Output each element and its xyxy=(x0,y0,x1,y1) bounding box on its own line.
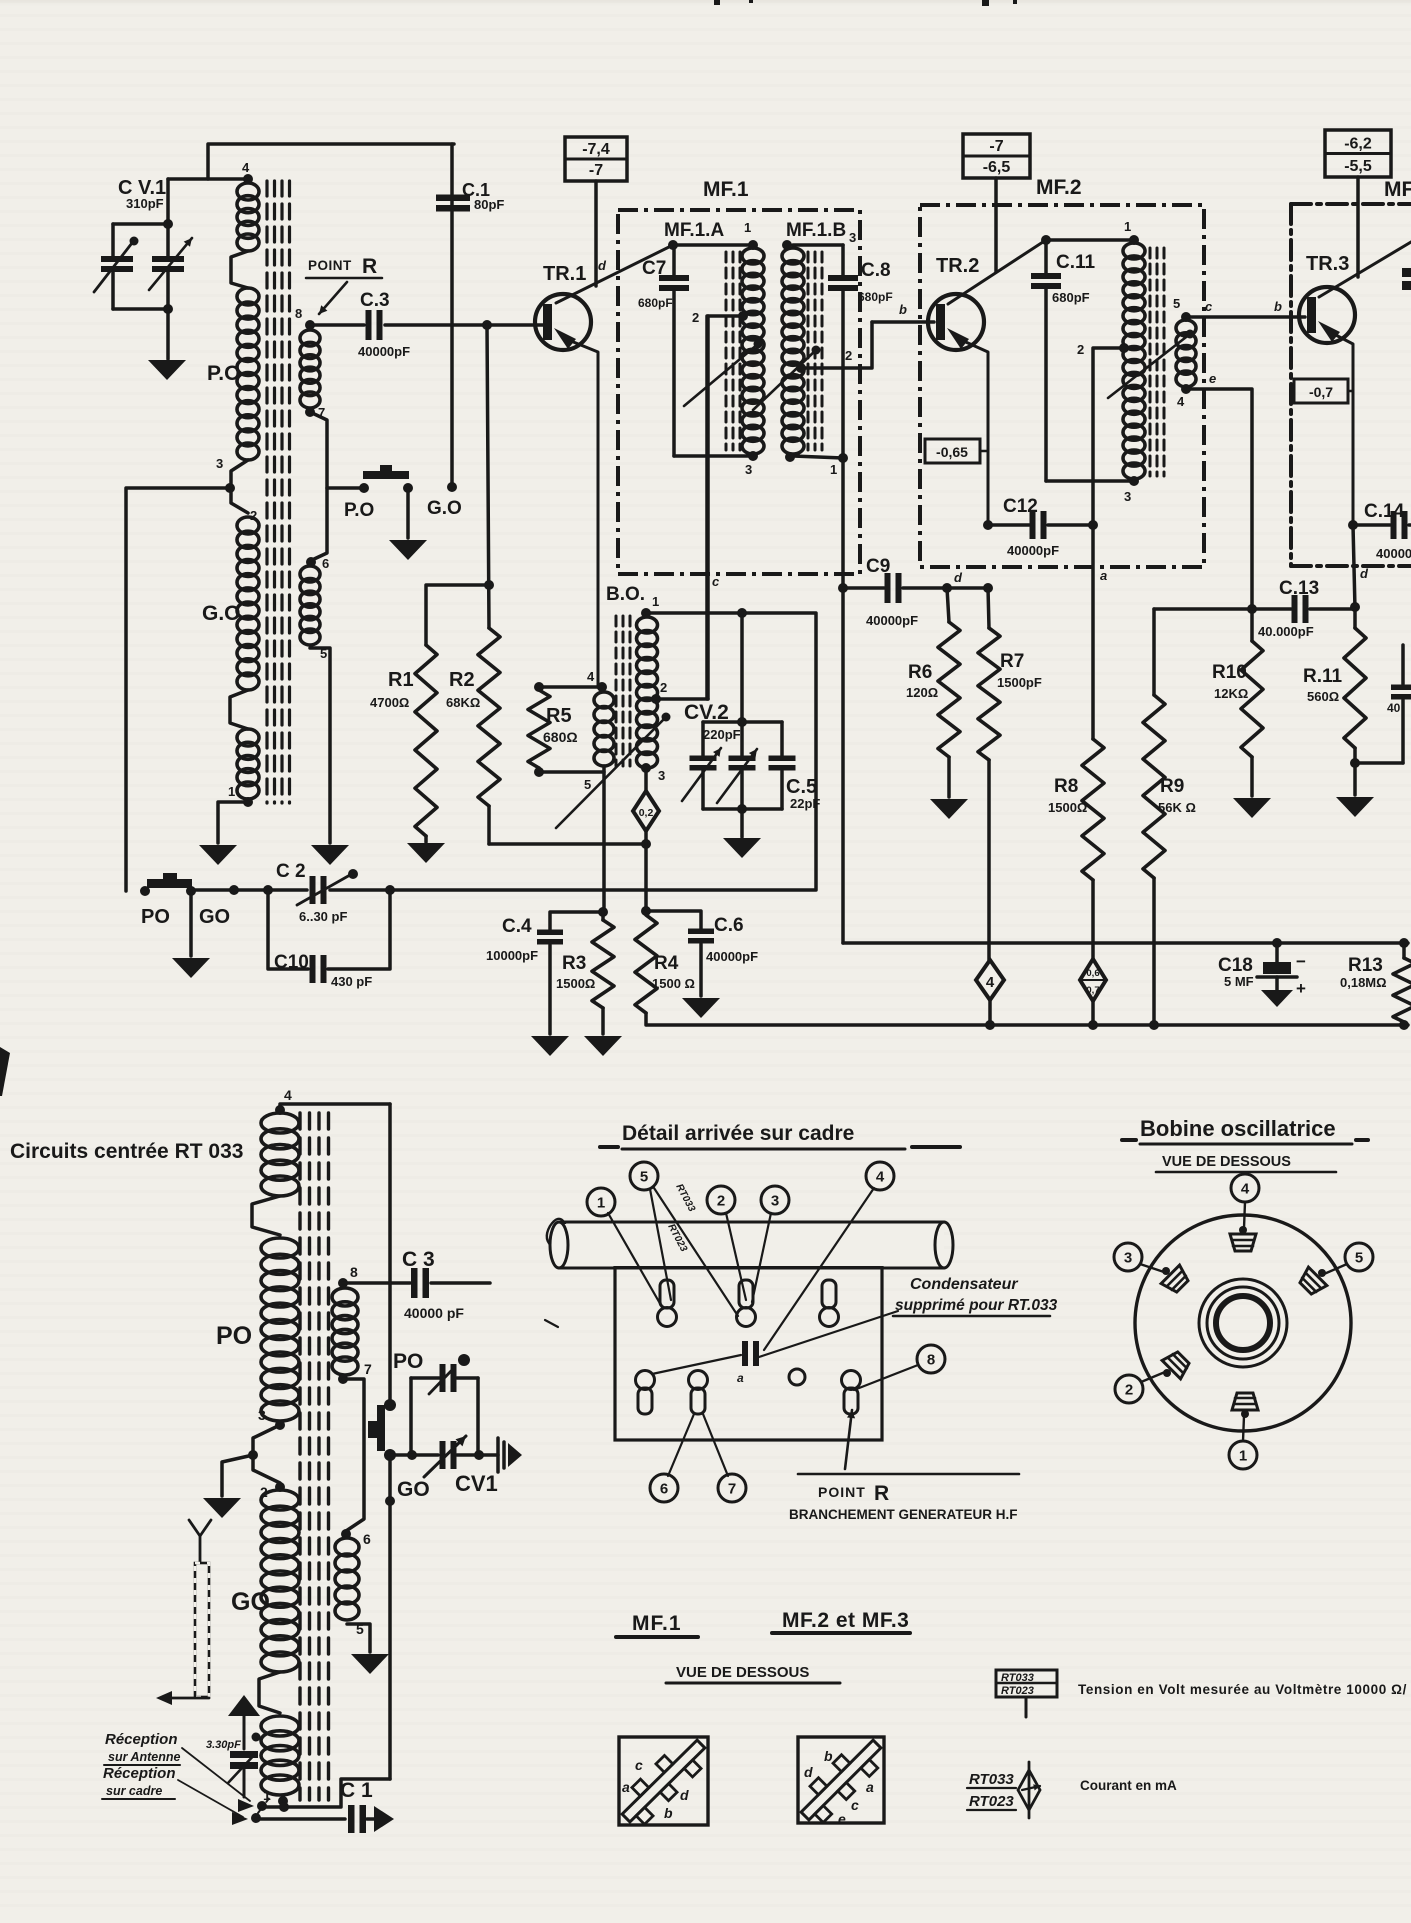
svg-text:TR.2: TR.2 xyxy=(936,255,979,277)
title bobine xyxy=(1122,1116,1368,1144)
svg-text:2: 2 xyxy=(1125,1381,1133,1398)
label vue dessous foot xyxy=(666,1664,840,1683)
svg-text:Bobine oscillatrice: Bobine oscillatrice xyxy=(1140,1116,1336,1141)
wire MF1A top rail xyxy=(668,240,758,250)
svg-text:4: 4 xyxy=(1177,394,1185,409)
C.1 label xyxy=(462,180,504,212)
svg-text:b: b xyxy=(1274,299,1282,314)
circled 2 bob xyxy=(1115,1372,1165,1403)
pin2 tap MF1B xyxy=(796,322,872,373)
svg-text:C10: C10 xyxy=(274,952,309,973)
svg-text:5: 5 xyxy=(584,777,591,792)
circled 1 xyxy=(587,1188,662,1307)
svg-text:5: 5 xyxy=(1173,296,1180,311)
wire vbox TR2 xyxy=(994,178,998,272)
jog L2 xyxy=(252,1196,280,1235)
svg-text:0,6: 0,6 xyxy=(1086,968,1099,979)
C.6 label xyxy=(706,915,758,964)
lug 3 xyxy=(1161,1265,1191,1295)
svg-text:3.30pF: 3.30pF xyxy=(206,1739,241,1751)
resistor R10 xyxy=(1241,609,1263,796)
svg-text:310pF: 310pF xyxy=(126,196,164,211)
ink mark left edge xyxy=(0,1047,10,1096)
pin2 tap BO xyxy=(651,680,708,704)
antenna rod xyxy=(195,1563,209,1697)
bobine outer circle xyxy=(1135,1215,1351,1431)
svg-text:6: 6 xyxy=(660,1480,668,1497)
box PO CV1 xyxy=(407,1378,484,1460)
R10 label xyxy=(1212,662,1248,701)
svg-text:GO: GO xyxy=(231,1588,270,1616)
specks top edge xyxy=(714,0,1017,6)
core L1 xyxy=(267,181,290,803)
core L2 xyxy=(300,1113,329,1800)
resistor R5 xyxy=(528,682,604,777)
svg-text:8: 8 xyxy=(295,306,302,321)
svg-text:MF.1.B: MF.1.B xyxy=(786,220,846,241)
svg-text:C.8: C.8 xyxy=(861,260,891,281)
svg-text:1: 1 xyxy=(652,594,659,609)
board rect xyxy=(615,1266,882,1440)
svg-text:C.6: C.6 xyxy=(714,915,744,936)
pin1 MF1A xyxy=(744,220,751,235)
svg-text:TR.3: TR.3 xyxy=(1306,253,1349,275)
svg-text:8: 8 xyxy=(350,1264,358,1280)
svg-text:3: 3 xyxy=(1124,489,1131,504)
svg-text:MF.2 et MF.3: MF.2 et MF.3 xyxy=(782,1609,909,1632)
svg-text:R1: R1 xyxy=(388,669,414,691)
svg-text:7: 7 xyxy=(364,1361,372,1377)
wire GO contact to C1 xyxy=(447,144,457,492)
circled 8 xyxy=(854,1345,945,1390)
svg-text:40000pF: 40000pF xyxy=(358,344,410,359)
node TR2 collector xyxy=(1041,235,1051,245)
label POINT R b xyxy=(818,1482,889,1505)
voltage box TR3 xyxy=(1325,130,1391,177)
ground CV2 xyxy=(723,838,761,858)
net a wire C8 down xyxy=(838,291,848,943)
svg-text:GO: GO xyxy=(199,906,230,928)
capacitor C7 xyxy=(659,245,689,456)
legend courant xyxy=(1080,1778,1177,1793)
circled 6 xyxy=(650,1414,694,1502)
node R4 xyxy=(641,906,651,916)
capacitor CV1 b xyxy=(424,1436,466,1477)
wire top rail 2 xyxy=(280,1104,390,1110)
switch labels PO GO xyxy=(344,498,462,521)
svg-text:P.O: P.O xyxy=(207,362,240,385)
box -0,65 xyxy=(925,439,988,463)
pin post 3 xyxy=(820,1280,839,1327)
svg-text:Courant en mA: Courant en mA xyxy=(1080,1778,1177,1793)
pin3 MF1A xyxy=(745,462,752,477)
capacitor C.14 xyxy=(1348,511,1411,539)
capacitor PO var xyxy=(429,1354,470,1394)
svg-text:680Ω: 680Ω xyxy=(543,729,578,745)
wire collector rail MF2 xyxy=(1046,219,1139,245)
svg-text:MF.1.A: MF.1.A xyxy=(664,220,724,241)
cadre tube xyxy=(550,1222,953,1268)
antenna symbol xyxy=(189,1520,211,1562)
coil L1 PO (pins 4-3) xyxy=(231,183,259,460)
svg-text:POINT: POINT xyxy=(818,1484,866,1500)
svg-text:R: R xyxy=(362,255,377,278)
ground R3 xyxy=(584,1036,622,1056)
svg-text:C12: C12 xyxy=(1003,496,1038,517)
voltage box TR2 xyxy=(963,134,1030,178)
wire R9 top rail xyxy=(1154,604,1257,614)
pin5 label BO xyxy=(584,777,591,792)
svg-text:C.13: C.13 xyxy=(1279,578,1319,599)
circled 4 bob xyxy=(1231,1174,1259,1228)
diamond 4 xyxy=(976,960,1004,1000)
resistor R1 xyxy=(415,585,489,842)
svg-text:5: 5 xyxy=(1355,1249,1363,1266)
cap fragment right edge xyxy=(1402,268,1411,290)
svg-text:4: 4 xyxy=(242,160,250,175)
capacitor C12 xyxy=(983,511,1098,539)
legend tension xyxy=(1078,1682,1407,1697)
diamond 0,2 xyxy=(633,768,659,831)
pin2 tap MF2 xyxy=(1077,342,1129,525)
svg-text:3: 3 xyxy=(658,768,665,783)
C9 label xyxy=(866,556,918,628)
circled 4 xyxy=(764,1162,894,1350)
svg-text:C.5: C.5 xyxy=(786,776,817,798)
svg-text:C7: C7 xyxy=(642,258,666,279)
svg-text:1: 1 xyxy=(744,220,751,235)
svg-text:40: 40 xyxy=(1387,701,1401,715)
svg-text:PO: PO xyxy=(141,906,170,928)
MF.2 label xyxy=(1036,176,1082,199)
svg-text:3: 3 xyxy=(745,462,752,477)
svg-text:6..30 pF: 6..30 pF xyxy=(299,909,347,924)
ground C6 xyxy=(682,998,720,1018)
svg-text:10000pF: 10000pF xyxy=(486,948,538,963)
coil L1 sec 8-7 xyxy=(295,306,325,420)
resistor R7 xyxy=(978,588,1000,960)
R4 label xyxy=(652,953,695,991)
wire pin7 to pin6 xyxy=(343,1379,364,1531)
svg-text:−: − xyxy=(1296,952,1306,971)
ground R6 xyxy=(930,799,968,819)
CV.1 label xyxy=(118,177,166,211)
jog L2 b xyxy=(259,1672,280,1713)
coil L2 PO a xyxy=(261,1113,299,1196)
wire CV2 stem xyxy=(740,613,744,722)
label condensateur xyxy=(893,1276,1058,1316)
svg-text:-0,65: -0,65 xyxy=(936,444,968,460)
diagram MF2 socket xyxy=(798,1737,884,1827)
resistor R4 xyxy=(635,915,657,1025)
svg-text:B.O.: B.O. xyxy=(606,584,645,605)
capacitor CV.2 xyxy=(682,717,782,809)
net d wire C9 xyxy=(838,583,884,593)
svg-text:4: 4 xyxy=(587,669,595,684)
svg-text:R8: R8 xyxy=(1054,776,1078,797)
core MF2 xyxy=(1150,248,1164,476)
legend box RT033 RT023 xyxy=(996,1670,1057,1717)
legend RT023 italic xyxy=(967,1793,1016,1810)
svg-text:a: a xyxy=(737,1371,744,1385)
wire diamond4 bottom xyxy=(985,1000,995,1030)
svg-text:R2: R2 xyxy=(449,669,475,691)
svg-text:a: a xyxy=(1100,568,1107,583)
svg-text:Condensateur: Condensateur xyxy=(910,1276,1018,1293)
svg-text:-7,4: -7,4 xyxy=(582,141,610,158)
node R3 xyxy=(598,907,608,917)
circled 2 xyxy=(707,1186,746,1300)
svg-text:R7: R7 xyxy=(1000,651,1024,672)
svg-text:+: + xyxy=(1296,979,1306,998)
capacitor supprime xyxy=(737,1341,759,1385)
wire C1 line xyxy=(256,1817,345,1821)
svg-text:1500Ω: 1500Ω xyxy=(556,976,595,991)
wire base TR.2 xyxy=(872,302,934,322)
slug arrow MF1B xyxy=(753,346,821,411)
CV.2 label xyxy=(684,701,741,742)
ground pin5 b xyxy=(351,1654,389,1674)
PO winding label xyxy=(207,362,240,385)
svg-text:1: 1 xyxy=(1239,1447,1247,1464)
box MF.1 xyxy=(618,210,860,574)
TR.1 collector xyxy=(556,245,673,303)
svg-text:d: d xyxy=(598,258,607,273)
svg-text:40.000pF: 40.000pF xyxy=(1258,624,1314,639)
ground GOsw2 xyxy=(172,958,210,978)
slug arrow BO xyxy=(556,713,671,829)
svg-text:d: d xyxy=(954,570,963,585)
svg-text:0,2: 0,2 xyxy=(639,807,654,819)
svg-text:Réception: Réception xyxy=(103,1765,176,1782)
R5 label xyxy=(543,705,578,745)
wire MF2 bottom rail xyxy=(1046,476,1139,504)
svg-text:56K Ω: 56K Ω xyxy=(1158,800,1196,815)
lug 4 xyxy=(1230,1226,1256,1251)
svg-text:VUE DE DESSOUS: VUE DE DESSOUS xyxy=(676,1664,809,1681)
squiggle xyxy=(545,1219,570,1327)
svg-text:CV1: CV1 xyxy=(455,1471,498,1496)
wire MF1B top rail xyxy=(782,230,856,250)
arrow point R b xyxy=(845,1410,855,1469)
svg-text:40000pF: 40000pF xyxy=(706,949,758,964)
svg-text:C.11: C.11 xyxy=(1056,252,1096,273)
svg-text:CV.2: CV.2 xyxy=(684,701,729,724)
svg-text:a: a xyxy=(866,1779,874,1795)
capacitor C.13 xyxy=(1252,595,1355,623)
svg-text:-6,5: -6,5 xyxy=(983,159,1011,176)
C12 label xyxy=(1003,496,1059,558)
pin post 1 xyxy=(658,1280,677,1327)
coil BO feedback xyxy=(594,682,614,766)
circled 7 xyxy=(703,1414,746,1502)
resistor R3 xyxy=(592,912,614,1034)
svg-text:2: 2 xyxy=(845,348,852,363)
wire emitter TR3 down xyxy=(1353,525,1355,609)
node pin6 b xyxy=(341,1529,371,1547)
ground GOsw xyxy=(389,540,427,560)
pin 1 label xyxy=(228,784,235,799)
svg-text:c: c xyxy=(712,574,720,589)
svg-text:GO: GO xyxy=(397,1478,430,1501)
svg-text:MF.1: MF.1 xyxy=(703,178,749,201)
wire pin3 jog xyxy=(248,1425,280,1483)
svg-text:6: 6 xyxy=(363,1531,371,1547)
net a label xyxy=(1100,568,1107,583)
svg-text:R: R xyxy=(874,1482,889,1505)
coil MF2 xyxy=(1123,243,1145,479)
svg-text:1500pF: 1500pF xyxy=(997,675,1042,690)
R13 label xyxy=(1340,955,1387,990)
R7 label xyxy=(997,651,1042,690)
transistor TR.1 xyxy=(535,294,591,350)
ground right CV1 xyxy=(498,1438,522,1472)
wire osc loop left xyxy=(191,885,395,895)
svg-text:40000 pF: 40000 pF xyxy=(404,1305,464,1321)
coil MF2 secondary xyxy=(1173,296,1196,409)
svg-text:e: e xyxy=(1209,371,1216,386)
TR.1 label xyxy=(543,263,586,285)
lug 5 xyxy=(1296,1267,1326,1297)
svg-text:Tension en Volt mesurée au: Tension en Volt mesurée au Voltmètre 100… xyxy=(1078,1682,1407,1697)
coil L2 sec 8-7 xyxy=(332,1264,372,1384)
MF.1.A label xyxy=(664,220,724,241)
svg-text:680pF: 680pF xyxy=(858,290,893,304)
svg-text:R6: R6 xyxy=(908,662,932,683)
selector contacts xyxy=(232,1797,270,1825)
label branchement xyxy=(789,1507,1018,1522)
svg-text:680pF: 680pF xyxy=(1052,290,1090,305)
box -0,7 xyxy=(1294,379,1353,403)
TR.1 emitter xyxy=(554,328,598,687)
subtitle vue dessous xyxy=(1156,1154,1336,1172)
MF.1 label xyxy=(703,178,749,201)
MF.1.B label xyxy=(786,220,846,241)
svg-text:1: 1 xyxy=(830,462,837,477)
svg-text:R9: R9 xyxy=(1160,776,1184,797)
wire pin7 to PO switch xyxy=(310,412,327,560)
svg-text:1500 Ω: 1500 Ω xyxy=(652,976,695,991)
svg-text:R10: R10 xyxy=(1212,662,1247,683)
TR.3 label xyxy=(1306,253,1349,275)
RT033 rotated xyxy=(673,1182,697,1214)
svg-text:0,18MΩ: 0,18MΩ xyxy=(1340,975,1387,990)
PO label 2 xyxy=(216,1322,252,1350)
svg-text:220pF: 220pF xyxy=(703,727,741,742)
svg-text:C18: C18 xyxy=(1218,955,1253,976)
PO label sw xyxy=(393,1350,423,1373)
svg-text:C.3: C.3 xyxy=(360,290,390,311)
wire PO contact xyxy=(327,486,364,490)
svg-text:-6,2: -6,2 xyxy=(1344,136,1372,153)
box MF.3 xyxy=(1291,204,1411,566)
board hole xyxy=(789,1369,805,1385)
svg-text:G.O: G.O xyxy=(427,498,462,519)
svg-text:C.4: C.4 xyxy=(502,916,532,937)
lug 2 xyxy=(1162,1348,1192,1378)
svg-text:d: d xyxy=(1360,566,1369,581)
slug arrow MF1A xyxy=(684,340,763,407)
diamond 0,6 0,7 xyxy=(1080,959,1106,1001)
title RT033 xyxy=(10,1140,243,1163)
point R line xyxy=(798,1473,1019,1476)
resistor R13 xyxy=(1393,938,1411,1030)
svg-text:R13: R13 xyxy=(1348,955,1383,976)
wire pin5 to ground xyxy=(310,648,330,843)
capacitor C1 b xyxy=(348,1805,374,1833)
TR.2 emitter xyxy=(947,328,988,525)
svg-text:2: 2 xyxy=(692,310,699,325)
svg-text:680pF: 680pF xyxy=(638,296,673,310)
ground C18 xyxy=(1261,990,1293,1007)
svg-text:Réception: Réception xyxy=(105,1731,178,1748)
svg-text:RT023: RT023 xyxy=(969,1793,1014,1810)
wire pin5 gnd xyxy=(347,1624,370,1652)
resistor R11 xyxy=(1344,566,1369,795)
svg-text:P.O: P.O xyxy=(344,500,374,521)
node pin2 b xyxy=(260,1482,285,1500)
callout line cadre xyxy=(178,1780,243,1817)
svg-text:4700Ω: 4700Ω xyxy=(370,695,409,710)
svg-text:80pF: 80pF xyxy=(474,197,504,212)
wire pin3 to PO/GO line xyxy=(126,488,230,891)
svg-text:-7: -7 xyxy=(989,138,1003,155)
R9 label xyxy=(1158,776,1196,815)
label d TR1 xyxy=(598,258,607,273)
svg-text:560Ω: 560Ω xyxy=(1307,689,1339,704)
coil L2 sec 6-5 xyxy=(335,1538,364,1637)
B.O. label xyxy=(606,584,645,605)
R8 label xyxy=(1048,776,1087,815)
coil MF1A xyxy=(742,248,764,454)
R11 label xyxy=(1303,666,1343,704)
core MF1B xyxy=(808,252,822,450)
coil L2 GO a xyxy=(261,1490,299,1672)
wire to ground b xyxy=(222,1455,253,1496)
C.13 label xyxy=(1258,578,1319,639)
svg-text:R.11: R.11 xyxy=(1303,666,1343,687)
capacitor C.5 xyxy=(769,722,796,809)
svg-text:4: 4 xyxy=(876,1168,885,1185)
C10 label xyxy=(274,952,372,989)
core BO xyxy=(616,616,630,766)
svg-text:d: d xyxy=(680,1787,689,1803)
capacitor C.11 xyxy=(1031,240,1061,481)
lug 1 xyxy=(1232,1393,1258,1418)
C1 b label xyxy=(340,1779,373,1802)
node pin4 b xyxy=(275,1087,292,1115)
svg-text:POINT: POINT xyxy=(308,258,352,273)
capacitor C10 xyxy=(268,890,390,983)
capacitor CV.1 xyxy=(94,179,192,314)
coil L2 GO b xyxy=(261,1716,299,1795)
R2 label xyxy=(446,669,480,710)
GO CV1 labels xyxy=(397,1471,498,1501)
wire pin4 down xyxy=(1186,371,1252,609)
node pin 4 xyxy=(242,160,253,184)
wire osc loop xyxy=(330,608,816,890)
node R2 top xyxy=(482,320,492,330)
wire vbox TR1 xyxy=(594,181,598,286)
svg-text:-7: -7 xyxy=(589,162,603,179)
svg-text:c: c xyxy=(1205,299,1213,314)
capacitor C.4 xyxy=(537,912,603,1034)
wire vbox TR3 xyxy=(1356,177,1360,277)
wire right vertical b xyxy=(385,1104,395,1779)
ground pin1 xyxy=(199,845,237,865)
TR.3 emitter xyxy=(1318,321,1353,525)
circled 5 xyxy=(630,1162,738,1316)
